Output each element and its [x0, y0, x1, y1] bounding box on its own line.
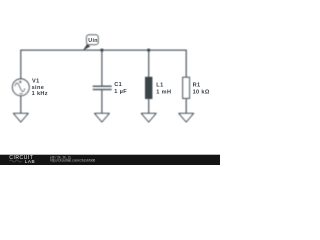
inductor L1 body — [145, 77, 152, 98]
svg-text:L1: L1 — [156, 83, 163, 89]
ground L1 — [141, 113, 156, 122]
wire top horizontal net — [21, 50, 186, 79]
ground C1 — [95, 113, 110, 122]
V1 plus sign — [19, 80, 22, 83]
svg-text:LAB: LAB — [25, 159, 35, 164]
wire V1 bottom — [20, 96, 22, 114]
wire C1 bottom — [101, 90, 103, 114]
svg-text:1 mH: 1 mH — [156, 90, 171, 96]
wire R1 bottom — [185, 98, 187, 113]
watermark bar — [0, 155, 220, 165]
V1 minus sign — [19, 93, 22, 95]
voltage source V1 circle — [12, 79, 29, 96]
svg-text:R1: R1 — [193, 83, 201, 89]
svg-text:sine: sine — [32, 85, 45, 91]
svg-text:10 kΩ: 10 kΩ — [193, 90, 210, 96]
svg-text:1 kHz: 1 kHz — [32, 91, 48, 97]
wire L1 bottom — [148, 99, 150, 114]
node junction dot L1 — [147, 48, 150, 51]
flag Uin pointer — [83, 44, 90, 51]
flag Uin box — [87, 35, 99, 45]
svg-text:http://circuitlab.com/c/bzxbfd: http://circuitlab.com/c/bzxbfdd6 — [50, 159, 95, 163]
svg-text:Uin: Uin — [88, 38, 98, 44]
wire L1 top — [148, 50, 150, 77]
svg-text:V1: V1 — [32, 78, 40, 84]
ground V1 — [13, 113, 28, 122]
resistor R1 body — [183, 77, 190, 98]
ground R1 — [179, 113, 194, 122]
wire C1 top — [101, 50, 103, 86]
V1 sine wave — [15, 83, 25, 92]
svg-text:C1: C1 — [114, 82, 122, 88]
capacitor C1 plates — [93, 85, 112, 87]
svg-text:1 µF: 1 µF — [114, 89, 127, 95]
watermark logo wave — [10, 160, 22, 162]
node junction dot C1 — [100, 48, 103, 51]
